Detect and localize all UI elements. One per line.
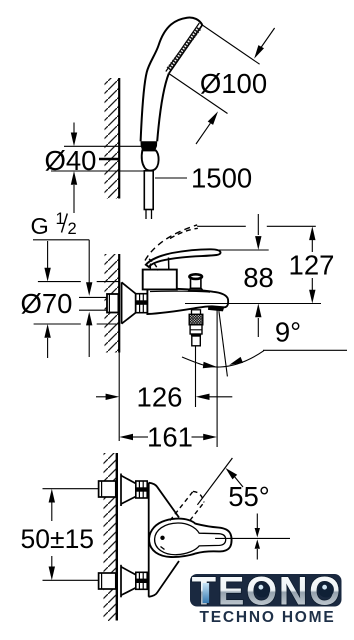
faucet body (bottom view): [149, 483, 180, 597]
cone: [121, 476, 136, 505]
lever indicator dot: [160, 536, 164, 540]
svg-text:126: 126: [137, 381, 183, 412]
cartridge block: [143, 270, 177, 290]
converging mini arrows: [256, 514, 258, 529]
wall hatch top: [105, 78, 120, 199]
dimension Ø100: [169, 25, 275, 144]
svg-text:G: G: [31, 213, 49, 239]
svg-text:127: 127: [289, 250, 335, 281]
lever top face inner contour: [155, 523, 226, 555]
dimension 161: [133, 436, 204, 438]
label G 1/2: [31, 210, 77, 239]
shower hose: [144, 171, 153, 219]
hex nut: [99, 481, 116, 497]
dimension Ø40: [51, 123, 145, 214]
sprayer / diverter below body: [192, 310, 201, 315]
lever paddle (bottom view): [149, 519, 231, 557]
svg-text:Ø100: Ø100: [200, 68, 267, 99]
dimension G1/2 leader: [33, 240, 108, 357]
dimension Ø70: [34, 241, 120, 358]
dimension 126: [96, 396, 232, 398]
top union (bottom view): [99, 474, 148, 507]
rings: [136, 481, 147, 498]
sprayer stream line: [195, 346, 197, 407]
dimension 88: [257, 214, 259, 337]
wall extension line to 126/161: [118, 353, 120, 442]
center axis line: [215, 537, 290, 539]
hex nut middle: [107, 294, 118, 313]
svg-text:50±15: 50±15: [21, 524, 95, 554]
wall hatch middle: [105, 254, 120, 353]
bottom union (bottom view): [99, 565, 148, 598]
union rings middle: [136, 294, 148, 313]
svg-text:Ø40: Ø40: [45, 145, 97, 176]
TEONO logo: [190, 570, 342, 627]
lever raised dashed: [145, 225, 198, 271]
dimension 50±15: [43, 489, 99, 581]
wall holder elbow: [142, 150, 159, 170]
svg-text:88: 88: [243, 262, 274, 293]
hose nut (black): [141, 141, 158, 150]
svg-text:161: 161: [147, 421, 193, 452]
aerator outlet: [208, 306, 224, 311]
svg-text:9°: 9°: [275, 317, 301, 348]
wall hatch bottom: [104, 453, 117, 621]
faucet body middle: [147, 288, 228, 314]
spray face nozzles: [168, 29, 199, 70]
dimension 127: [185, 226, 321, 303]
svg-text:TECHNO HOME: TECHNO HOME: [199, 609, 335, 626]
lever indicator tick: [161, 547, 165, 550]
label 1500: [155, 177, 187, 179]
svg-text:55°: 55°: [228, 481, 270, 512]
diverter knob: [189, 274, 203, 291]
svg-text:Ø70: Ø70: [21, 288, 73, 319]
lever top tangent line (88 reference): [219, 249, 269, 251]
dimension 55 degrees: [197, 458, 232, 505]
lever raised dashed (bottom view, 55°): [170, 491, 204, 520]
flange: [120, 474, 122, 507]
holder screw line: [99, 158, 120, 161]
dimension 9 degrees: [182, 308, 347, 448]
lever handle: [146, 249, 221, 267]
svg-text:2: 2: [68, 220, 77, 238]
svg-text:1500: 1500: [191, 163, 252, 194]
escutcheon cone middle: [122, 282, 136, 323]
cartridge neck: [150, 258, 169, 271]
hand shower head and handle: [141, 18, 203, 142]
